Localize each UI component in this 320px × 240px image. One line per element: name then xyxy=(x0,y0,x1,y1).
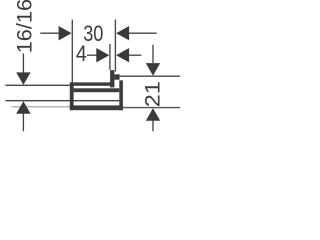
svg-text:21: 21 xyxy=(140,81,164,107)
svg-text:4: 4 xyxy=(76,42,87,66)
svg-text:16/16: 16/16 xyxy=(13,0,37,53)
